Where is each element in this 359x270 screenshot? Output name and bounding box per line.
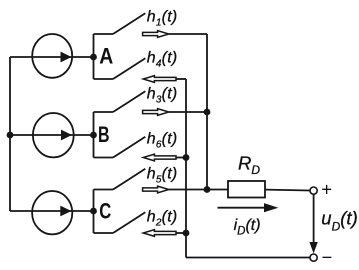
current source C [32, 191, 72, 234]
label h5(t) [147, 166, 178, 186]
svg-text:h4(t): h4(t) [147, 50, 178, 70]
wire stem at node A [93, 34, 95, 79]
switch h5 [94, 169, 146, 190]
svg-text:RD: RD [238, 153, 260, 178]
label uD(t) [321, 208, 357, 234]
junction positive bus / h3 [204, 109, 211, 116]
flow arrow h6 [143, 154, 176, 161]
flow arrow h5 [143, 186, 169, 193]
current arrow iD [218, 203, 279, 212]
wire h6 to negative bus [176, 157, 186, 159]
svg-text:C: C [99, 199, 111, 224]
wire h3 to positive bus [169, 111, 207, 113]
wire bottom return rail [186, 257, 310, 259]
label h4(t) [147, 50, 178, 70]
label h1(t) [147, 9, 178, 29]
flow arrow h4 [143, 76, 176, 83]
wire stem at node C [93, 190, 95, 234]
wire left supply bus [9, 57, 11, 211]
svg-text:h3(t): h3(t) [147, 86, 178, 106]
wire h4 to negative bus [176, 78, 186, 80]
svg-text:B: B [98, 122, 110, 147]
svg-text:−: − [322, 247, 333, 268]
flow arrow h2 [143, 230, 176, 237]
label iD(t) [234, 217, 261, 238]
wire h1 to positive bus [169, 33, 207, 35]
switch h4 [94, 58, 146, 79]
current source A [32, 34, 72, 78]
label h3(t) [147, 86, 178, 106]
wire negative bus [185, 79, 187, 258]
switch h3 [94, 91, 146, 112]
voltage arrow uD [309, 194, 317, 253]
svg-text:uD(t): uD(t) [321, 208, 357, 234]
wire phase C horizontal [10, 210, 94, 212]
resistor RD [228, 153, 265, 198]
switch h1 [94, 13, 146, 34]
node C [90, 199, 111, 224]
terminal minus [310, 247, 332, 268]
flow arrow h1 [143, 31, 169, 38]
svg-text:h1(t): h1(t) [147, 9, 178, 29]
svg-text:h6(t): h6(t) [147, 131, 178, 151]
junction negative bus / h6 [183, 154, 190, 161]
node on left bus at phase B [7, 132, 14, 139]
label h2(t) [147, 209, 178, 229]
wire resistor to plus terminal [265, 189, 310, 192]
node A [90, 44, 113, 69]
wire phase B horizontal [10, 134, 94, 136]
node B [90, 122, 109, 147]
wire phase A horizontal [10, 56, 94, 58]
current source B [33, 113, 74, 157]
junction negative bus / h2 [183, 230, 190, 237]
switch h2 [94, 212, 146, 233]
label h6(t) [147, 131, 178, 151]
junction positive bus / load node [204, 186, 211, 193]
terminal plus [310, 179, 332, 200]
wire stem at node B [93, 112, 95, 158]
svg-text:+: + [321, 179, 332, 200]
wire h5 to load node [169, 189, 228, 191]
svg-text:iD(t): iD(t) [234, 217, 261, 238]
svg-text:h5(t): h5(t) [147, 166, 178, 186]
wire h2 to negative bus [176, 232, 186, 234]
svg-text:A: A [99, 44, 113, 69]
switch h6 [94, 137, 146, 158]
flow arrow h3 [143, 109, 169, 116]
wire positive bus [206, 34, 208, 190]
svg-text:h2(t): h2(t) [147, 209, 178, 229]
